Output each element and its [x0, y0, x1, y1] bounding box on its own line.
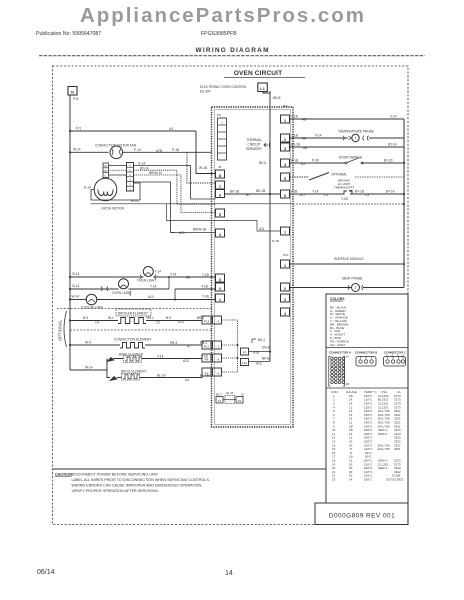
svg-text:SEW-1: SEW-1: [378, 466, 388, 470]
svg-text:BY-20: BY-20: [384, 159, 393, 163]
connector B shell: [356, 357, 376, 367]
node neutral run end: [403, 203, 405, 205]
svg-text:BK-2: BK-2: [258, 338, 265, 342]
svg-text:AB: AB: [186, 275, 190, 279]
legend column box: [326, 294, 408, 503]
wire table rows: [332, 394, 404, 482]
svg-text:OPTIONAL: OPTIONAL: [58, 319, 63, 341]
wire from fan to board: [123, 151, 212, 153]
switch door: [345, 162, 347, 164]
svg-text:BK-B: BK-B: [273, 96, 280, 100]
svg-text:Y-1B: Y-1B: [291, 115, 298, 119]
fuse F3: [241, 348, 249, 355]
wire L1 drop: [263, 92, 270, 94]
svg-text:BK-B: BK-B: [262, 357, 269, 361]
divider below broiler: [70, 329, 212, 331]
svg-text:LABEL ALL WIRES PRIOR TO DISCO: LABEL ALL WIRES PRIOR TO DISCONNECTION W…: [72, 478, 210, 482]
wire convection element row left: [70, 344, 120, 346]
node junctions: [237, 344, 239, 346]
svg-text:GN-B: GN-B: [262, 346, 270, 350]
svg-text:J5: J5: [218, 165, 222, 169]
connector P13 on board edge: [202, 316, 211, 324]
connector P11 pin 4: [281, 159, 290, 167]
svg-text:A3: A3: [169, 127, 173, 131]
divider below colors: [326, 347, 408, 349]
svg-text:C1: C1: [324, 193, 328, 197]
group: EOC board: [167, 91, 294, 427]
svg-text:B-14: B-14: [73, 272, 80, 276]
wire broiler row left: [70, 320, 118, 322]
svg-text:L1: L1: [260, 86, 265, 91]
node light rows tie: [168, 276, 170, 278]
svg-text:G-14: G-14: [138, 162, 145, 166]
svg-text:W-14: W-14: [131, 199, 139, 203]
svg-text:A12: A12: [256, 362, 262, 366]
svg-text:B-5: B-5: [83, 316, 88, 320]
connector P11 pin 5: [281, 173, 290, 181]
connector J5 pin 4: [216, 229, 225, 237]
svg-text:W-1: W-1: [108, 316, 114, 320]
svg-text:C4: C4: [95, 320, 99, 324]
svg-text:EL-B: EL-B: [227, 391, 234, 395]
svg-text:PB-3: PB-3: [170, 341, 177, 345]
connector J5 pin 1: [216, 294, 225, 302]
lamp oven light 2: [119, 279, 129, 289]
svg-text:F3: F3: [243, 351, 247, 355]
svg-text:T-14: T-14: [155, 269, 162, 273]
svg-text:CONVECTION ELEMENT: CONVECTION ELEMENT: [114, 338, 151, 342]
svg-text:Y-1B: Y-1B: [202, 295, 209, 299]
svg-text:BL-14: BL-14: [157, 374, 166, 378]
svg-text:SEW-1: SEW-1: [378, 432, 388, 436]
svg-text:OPTIONAL: OPTIONAL: [331, 172, 347, 176]
connector P10 pin 1: [281, 260, 290, 268]
wire oven light row 2: [70, 288, 119, 290]
wire row P11-1 to bus: [290, 118, 405, 120]
wire oven light 2 to J5 pin 2: [129, 288, 216, 290]
svg-text:EXL-750: EXL-750: [378, 447, 390, 451]
connector latch switch NC/NO/C: [103, 163, 109, 178]
wire to convection fan: [70, 151, 109, 153]
optional section divider: [57, 308, 212, 310]
svg-text:B1: B1: [246, 193, 250, 197]
connector P7 on board edge: [202, 368, 211, 376]
connector P1: [216, 397, 223, 404]
svg-text:MEAT PROBE: MEAT PROBE: [342, 276, 363, 280]
wire drop to J5 pin 8: [196, 131, 216, 174]
group: left circuit: [57, 87, 405, 382]
motor latch M1: [94, 178, 117, 201]
connector P11 pin 3: [281, 143, 290, 151]
wire P-5 / A3 row: [70, 130, 196, 132]
connector A pin grid: [329, 357, 345, 387]
title: OVEN CIRCUIT: [200, 70, 305, 94]
svg-text:N: N: [71, 90, 74, 95]
svg-text:BK-1B: BK-1B: [256, 189, 265, 193]
connector P11 pin 2: [281, 134, 290, 142]
svg-text:23: 23: [332, 478, 336, 482]
group: caution: [53, 469, 327, 493]
wire row P11-6 hi-limit: [290, 193, 337, 195]
heater broil element in box: [122, 374, 140, 381]
connector J5 pin 8: [216, 170, 225, 178]
svg-text:COOLING FAN: COOLING FAN: [81, 306, 103, 310]
connector J5 pin 5: [216, 209, 225, 217]
svg-text:WIRING ERRORS CAN CAUSE IMPROP: WIRING ERRORS CAN CAUSE IMPROPER AND DAN…: [72, 483, 203, 487]
header rule: [39, 55, 425, 57]
svg-text:THERMOSTAT: THERMOSTAT: [334, 186, 354, 190]
svg-text:1B: 1B: [346, 382, 349, 386]
group: colors/table column: [315, 294, 408, 525]
svg-text:W-1B: W-1B: [199, 166, 207, 170]
svg-text:V-14: V-14: [390, 114, 397, 118]
wire element feed riser: [70, 359, 110, 378]
svg-text:P1: P1: [218, 399, 222, 403]
svg-text:C2: C2: [156, 320, 160, 324]
relay contact bake: [107, 358, 114, 362]
svg-text:A13: A13: [183, 359, 189, 363]
connector J5 pin 7: [216, 181, 225, 189]
wire J5 pin6 to P11 pin6: [225, 193, 281, 195]
wires NC/NO/C to strip: [109, 165, 127, 167]
svg-text:→4: →4: [215, 372, 220, 376]
wire between P1 and P2: [223, 399, 236, 401]
svg-text:ELECTRONIC OVEN CONTROL: ELECTRONIC OVEN CONTROL: [200, 85, 247, 89]
svg-text:C3: C3: [365, 193, 369, 197]
svg-text:D000G809 REV 001: D000G809 REV 001: [329, 513, 395, 520]
connector J5 pin 3: [216, 274, 225, 282]
svg-text:BY-1B: BY-1B: [355, 190, 364, 194]
svg-text:P-1B: P-1B: [172, 148, 179, 152]
svg-text:CIRCUIT: CIRCUIT: [248, 143, 261, 147]
connector P10 pin 3: [281, 294, 290, 302]
wire cooling fan row: [70, 299, 86, 301]
svg-text:C: C: [104, 174, 106, 178]
svg-text:BR-1: BR-1: [147, 316, 154, 320]
svg-text:06/14: 06/14: [37, 569, 55, 576]
svg-text:OVEN CIRCUIT: OVEN CIRCUIT: [234, 70, 282, 77]
outer diagram border: [53, 66, 409, 525]
svg-text:BR/W-1B: BR/W-1B: [193, 228, 206, 232]
svg-text:→8: →8: [215, 358, 220, 362]
wire row P10-2 meat probe bottom: [290, 287, 352, 289]
wire door switch to bus: [362, 162, 404, 164]
svg-text:200°C: 200°C: [364, 478, 373, 482]
svg-text:BY-1B: BY-1B: [291, 143, 300, 147]
svg-text:A14: A14: [178, 320, 184, 324]
svg-text:WIRING DIAGRAM: WIRING DIAGRAM: [196, 47, 269, 54]
svg-text:DISCONNECT POWER BEFORE SERVIC: DISCONNECT POWER BEFORE SERVICING UNIT.: [72, 472, 159, 476]
svg-text:BROILER ELEMENT: BROILER ELEMENT: [118, 311, 148, 315]
svg-text:A17: A17: [300, 193, 306, 197]
svg-text:A11: A11: [259, 227, 265, 231]
svg-text:D-1B: D-1B: [272, 239, 279, 243]
connector P10 pin 4: [281, 308, 290, 316]
connector C shell: [384, 357, 406, 367]
svg-text:GR.- GRAY: GR.- GRAY: [330, 343, 345, 347]
svg-text:CAUTION:: CAUTION:: [55, 472, 73, 476]
svg-text:Y-1B: Y-1B: [291, 190, 298, 194]
svg-text:A4: A4: [185, 378, 189, 382]
wire A11 to P11 pin7: [167, 204, 281, 231]
optional rotated label: [64, 311, 67, 347]
svg-text:Y-1B: Y-1B: [341, 197, 348, 201]
heater bake element in box: [124, 356, 142, 363]
svg-text:BY-14: BY-14: [386, 190, 395, 194]
sensor meat probe: [352, 284, 360, 292]
connector P11 pin 7: [281, 227, 290, 235]
svg-text:A1B: A1B: [253, 351, 259, 355]
svg-text:BK-6: BK-6: [259, 161, 266, 165]
svg-text:P-1B: P-1B: [291, 159, 298, 163]
wire meat probe to bus: [363, 287, 404, 289]
svg-text:A7: A7: [187, 344, 191, 348]
svg-text:P2: P2: [238, 399, 242, 403]
svg-text:VERIFY PROPER OPERATION AFTER: VERIFY PROPER OPERATION AFTER SERVICING.: [72, 489, 160, 493]
caution box top rule: [53, 468, 327, 470]
terminal L1: [258, 83, 268, 92]
wire BR/W-1B strip to J5 pin 4: [134, 182, 216, 233]
svg-text:A5: A5: [301, 162, 305, 166]
svg-text:BL-1B: BL-1B: [200, 374, 209, 378]
svg-text:AppliancePartsPros.com: AppliancePartsPros.com: [80, 4, 364, 27]
terminal N: [68, 87, 77, 96]
svg-text:P11: P11: [204, 345, 209, 349]
node bus junction: [403, 162, 405, 164]
svg-text:A13: A13: [148, 295, 154, 299]
svg-text:A20: A20: [179, 231, 185, 235]
fuse F10: [241, 359, 249, 366]
connector P10 pin 2: [281, 283, 290, 291]
svg-text:W-5: W-5: [85, 341, 91, 345]
svg-text:CONVECTION MOTOR FAN: CONVECTION MOTOR FAN: [95, 144, 137, 148]
relay contact broil: [110, 377, 117, 381]
svg-text:V-14: V-14: [315, 134, 322, 138]
svg-text:→3: →3: [215, 320, 220, 324]
svg-text:Publication No: 5995647087: Publication No: 5995647087: [36, 31, 101, 37]
wire probe to bus: [369, 137, 404, 139]
svg-text:Y-14: Y-14: [157, 355, 164, 359]
svg-text:OVEN LIGHT: OVEN LIGHT: [137, 279, 156, 283]
svg-text:P-5: P-5: [76, 127, 81, 131]
wire label A20: [171, 232, 175, 234]
node bus junction: [403, 263, 405, 265]
svg-text:BROIL ELEMENT: BROIL ELEMENT: [121, 369, 146, 373]
svg-text:P10: P10: [283, 253, 289, 257]
wire neutral bus: [69, 95, 71, 370]
svg-text:P-14: P-14: [134, 148, 141, 152]
revision box: [315, 503, 408, 525]
svg-text:P11: P11: [283, 104, 288, 108]
group: right circuit: [258, 83, 405, 292]
svg-text:P-30: P-30: [312, 159, 319, 163]
node bus junction: [403, 193, 405, 195]
wire oven light 1 to J5 pin 3: [153, 276, 215, 278]
wire G-14 strip to board stub: [134, 166, 216, 200]
svg-text:W-14: W-14: [73, 148, 81, 152]
svg-text:P13: P13: [204, 320, 210, 324]
wire drop to J5 pin 7: [187, 152, 216, 183]
svg-text:FPGS3085PFB: FPGS3085PFB: [201, 31, 237, 37]
svg-text:ES 300: ES 300: [200, 90, 211, 94]
svg-text:Y-1B: Y-1B: [201, 285, 208, 289]
svg-text:Y: Y: [292, 283, 294, 287]
wire right bus: [403, 119, 405, 288]
wire broiler row right: [146, 320, 202, 322]
wire label BK-2: [252, 339, 256, 343]
wire F10 to feed: [249, 361, 271, 363]
svg-text:SURFACE MODULE: SURFACE MODULE: [334, 257, 364, 261]
svg-text:W-14: W-14: [72, 295, 80, 299]
svg-text:BY-14: BY-14: [140, 166, 149, 170]
svg-text:OVEN LIGHT: OVEN LIGHT: [112, 291, 131, 295]
svg-text:BR-1: BR-1: [197, 316, 204, 320]
sensor temperature probe: [343, 136, 351, 141]
svg-text:TEMPERATURE PROBE: TEMPERATURE PROBE: [338, 129, 374, 133]
svg-text:D-14: D-14: [84, 186, 91, 190]
switch light row 2: [101, 287, 108, 292]
node bus junctions: [69, 130, 71, 132]
svg-text:3321: 3321: [394, 447, 401, 451]
svg-text:PB-1: PB-1: [200, 341, 207, 345]
svg-text:AB: AB: [302, 118, 306, 122]
connector J5 pin 2: [216, 283, 225, 291]
svg-text:NC: NC: [104, 164, 108, 168]
svg-text:AB: AB: [302, 137, 306, 141]
svg-text:Y-14: Y-14: [312, 190, 319, 194]
wire long neutral run: [91, 203, 294, 205]
svg-text:Y-1B: Y-1B: [201, 355, 208, 359]
wire bake row: [114, 358, 203, 360]
svg-text:→2: →2: [215, 345, 220, 349]
svg-text:2L: 2L: [241, 393, 245, 397]
heater broiler element: [118, 318, 146, 324]
wire long run drop: [177, 203, 216, 205]
svg-text:NO: NO: [104, 169, 108, 173]
connector P2: [236, 397, 243, 404]
wire oven light row 1: [70, 276, 144, 278]
node junction on BK-6 feed: [269, 193, 271, 195]
connector P12 on board edge: [202, 341, 211, 349]
svg-text:CONNECTOR B: CONNECTOR B: [355, 350, 378, 354]
thermal breaker arrow: [264, 142, 270, 148]
connector P8 on board edge: [202, 354, 211, 362]
svg-text:BUT: BUT: [216, 392, 222, 396]
svg-text:COLORS: COLORS: [330, 297, 345, 301]
relay EL-B box: [225, 396, 235, 404]
motor convection fan: [110, 146, 123, 159]
wire row P11-5 optional: [290, 176, 310, 178]
heater convection element: [120, 343, 145, 349]
wire BK-6 internal feed from L1: [269, 91, 271, 362]
svg-text:A7B: A7B: [156, 149, 162, 153]
node junction at F3 feed: [269, 350, 271, 352]
wire cooling fan to J5 pin 1: [97, 299, 216, 301]
svg-text:SGTS/13823: SGTS/13823: [386, 478, 404, 482]
wire bus from edge connectors: [222, 320, 238, 372]
wire row P10-1 meat probe top: [290, 263, 405, 265]
wire convection element row right: [145, 344, 202, 346]
svg-text:P-B: P-B: [73, 97, 78, 101]
svg-text:Y-1B: Y-1B: [291, 134, 298, 138]
wire row P11-3: [290, 146, 405, 148]
thermostat hi limit: [336, 191, 358, 194]
svg-text:BREAKER: BREAKER: [246, 147, 262, 151]
svg-text:P6: P6: [217, 113, 221, 117]
svg-text:T-14: T-14: [150, 285, 157, 289]
svg-text:14: 14: [349, 478, 353, 482]
svg-text:AB: AB: [303, 146, 307, 150]
switch optional: [309, 173, 329, 181]
EOC board outline U1: [212, 107, 294, 427]
svg-text:LATCH MOTOR: LATCH MOTOR: [101, 207, 125, 211]
wire BR/W-14 strip to J5 pin 5: [134, 175, 216, 213]
svg-text:T-1B: T-1B: [202, 273, 209, 277]
svg-text:THERMAL: THERMAL: [246, 138, 261, 142]
connector latch strip 6 pins: [127, 163, 134, 192]
svg-text:BK-1B: BK-1B: [230, 189, 239, 193]
svg-text:B-9: B-9: [166, 316, 171, 320]
connector P11 pin 6: [281, 190, 290, 198]
connector P11 pin 1: [281, 115, 290, 123]
svg-text:BY-14: BY-14: [388, 142, 397, 146]
broiler element label box: [116, 309, 151, 316]
wire hi-limit to bus: [350, 193, 404, 195]
wire row P11-4 door switch: [290, 162, 346, 164]
wire broil row: [117, 376, 202, 378]
wire BY-14 strip to long feed: [134, 170, 177, 204]
svg-text:Y-14: Y-14: [170, 273, 177, 277]
connector P6 pin stack: [218, 118, 227, 160]
motor cooling fan: [86, 294, 97, 305]
wire F3 to feed: [249, 351, 271, 353]
svg-text:W-14: W-14: [85, 366, 93, 370]
svg-text:CONNECTOR A: CONNECTOR A: [329, 350, 352, 354]
wire latch motor loop: [91, 183, 140, 200]
lamp oven light 1: [143, 267, 153, 277]
svg-text:B-14: B-14: [73, 284, 80, 288]
svg-text:F10: F10: [242, 361, 248, 365]
svg-text:BR/W-14: BR/W-14: [149, 171, 162, 175]
svg-text:14: 14: [225, 570, 233, 577]
divider above wire table: [326, 387, 408, 389]
connector J5 pin 6: [216, 190, 225, 198]
